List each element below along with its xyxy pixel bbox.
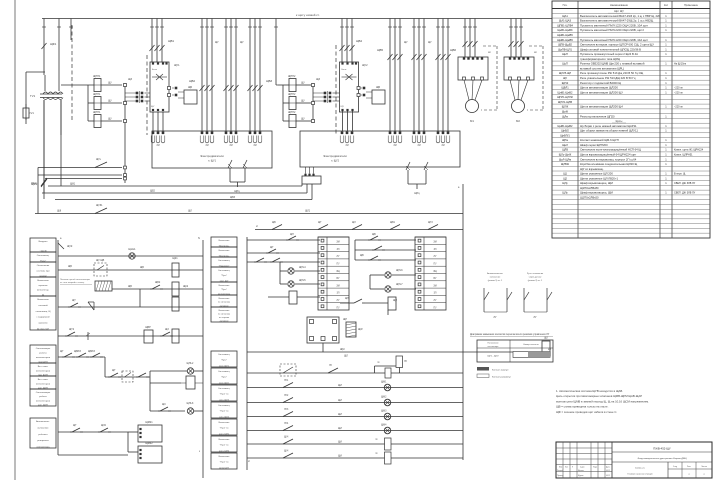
long wire annunciation feed: [35, 213, 463, 215]
svg-text:Разраб: Разраб: [557, 470, 563, 472]
svg-text:Выключатель автоматический ВА4: Выключатель автоматический ВА47-29Щ 2р, …: [580, 19, 654, 23]
svg-text:FV1: FV1: [29, 111, 34, 115]
svg-text:Провер: Провер: [557, 475, 563, 477]
svg-text:ЩПН2: ЩПН2: [288, 93, 296, 96]
svg-text:Включение: Включение: [219, 310, 231, 312]
svg-text:ЩФ1: ЩФ1: [50, 42, 57, 46]
table row line: [552, 108, 710, 110]
rung 3 wire: [112, 288, 203, 290]
upper rung ladder2 wire: [255, 229, 463, 231]
svg-text:ПЖВ-452-ЩУ: ПЖВ-452-ЩУ: [653, 447, 671, 451]
table row line: [552, 175, 710, 177]
title block left grid rows: [556, 447, 612, 449]
left rail L2: [246, 237, 248, 470]
svg-text:ЩнВ/2: ЩнВ/2: [561, 129, 569, 133]
svg-text:ЩПН1: ЩПН1: [93, 93, 101, 96]
svg-text:ЗЛ: ЗЛ: [434, 293, 437, 295]
cabinet boundary dashed: [71, 25, 73, 122]
cable run W6 to plug X6: [389, 19, 391, 132]
svg-text:ЩHL6: ЩHL6: [396, 269, 403, 272]
contact SQ5: [98, 431, 100, 433]
svg-text:сигн. ЩУ4: сигн. ЩУ4: [219, 417, 230, 419]
contact SB3: [340, 302, 352, 304]
relay coil K2: [172, 282, 179, 296]
cable run W4 to plug X4: [249, 19, 251, 132]
breaker QF2 on transformer output: [43, 172, 45, 199]
rung low-2 wire: [247, 387, 463, 389]
svg-text:ЩЛ1: ЩЛ1: [305, 210, 311, 213]
svg-text:ЩК2: ЩК2: [183, 285, 189, 288]
motor group enclosure 1: [152, 131, 272, 168]
resistor RL1: [385, 438, 392, 450]
fuse FU2: [94, 97, 101, 110]
wire pin row 1 left: [38, 167, 122, 169]
relay unit KM2: [138, 446, 162, 463]
svg-text:Сигнализац.: Сигнализац.: [218, 405, 230, 407]
svg-text:ЩЛу-ЩнЖ: ЩЛу-ЩнЖ: [559, 153, 572, 157]
svg-text:ЩПм: ЩПм: [562, 138, 568, 142]
arrow symbol: [87, 332, 89, 340]
svg-text:контактора: контактора: [488, 346, 499, 348]
svg-text:Выключатель автоматический ВА4: Выключатель автоматический ВА47-29/3 2р,…: [580, 14, 661, 18]
svg-text:Сигнализац.: Сигнализац.: [218, 371, 230, 373]
svg-text:ЩТ: ЩТ: [112, 370, 116, 372]
svg-text:ЩУ: ЩУ: [108, 82, 112, 85]
svg-text:ЗЛ: ЗЛ: [337, 249, 340, 251]
svg-text:ЩУ: ЩУ: [341, 106, 345, 108]
svg-text:ЗМ: ЗМ: [433, 285, 436, 287]
terminal strip XT2: [312, 83, 314, 123]
svg-text:ЩУ ЩВ: ЩУ ЩВ: [96, 259, 105, 262]
svg-text:ЩП: ЩП: [290, 234, 294, 236]
plug-socket X9: [313, 92, 324, 94]
riser left collector: [37, 168, 39, 214]
wires plug X5 to starter A1: [145, 92, 151, 94]
plug connectors on enclosure 2: [341, 132, 344, 135]
table row line: [552, 84, 710, 86]
wire left branch: [26, 71, 45, 73]
title block stage-sheet table: [681, 462, 683, 478]
svg-text:ЩПН2: ЩПН2: [288, 75, 296, 78]
contact QS3 on long wire: [95, 208, 107, 214]
svg-text:ЗМ: ЗМ: [417, 145, 420, 147]
svg-text:ЩВ8/3: ЩВ8/3: [88, 351, 96, 353]
svg-text:Контакт замкнут: Контакт замкнут: [492, 370, 508, 372]
aux device box A1-U: [184, 90, 197, 104]
svg-text:ЩПН1: ЩПН1: [93, 75, 101, 78]
contact on rung low-5: [283, 426, 293, 431]
riser mid bus C up: [311, 184, 313, 200]
svg-text:Включение: Включение: [219, 298, 231, 300]
svg-text:Щкаф взрывозащищ. ЩМ: Щкаф взрывозащищ. ЩМ: [580, 191, 613, 195]
svg-text:ЩУК: ЩУК: [67, 245, 73, 248]
wire fuse FU4 to terminal: [296, 84, 311, 86]
plug-socket X5: [125, 92, 136, 94]
svg-text:котлу ЩУ7: котлу ЩУ7: [219, 468, 230, 470]
lamp HL5: [280, 283, 287, 285]
svg-text:TV1: TV1: [30, 94, 36, 98]
svg-text:Реле промежуточное РЖ 513 Дщ 2: Реле промежуточное РЖ 513 Дщ 220 В 50 Гц…: [580, 71, 644, 75]
svg-text:Включение: Включение: [37, 299, 49, 301]
relay coil K4: [172, 329, 179, 343]
contact diagram table: [477, 340, 553, 362]
svg-text:ЩБ: ЩБ: [376, 85, 380, 89]
svg-text:ЗМ: ЗМ: [205, 145, 208, 147]
svg-text:ЗМ: ЗМ: [253, 145, 256, 147]
table row line: [552, 65, 710, 67]
table row line: [552, 127, 710, 129]
lamp HL3 branch wire: [150, 410, 185, 412]
svg-text:ПУ: ПУ: [433, 264, 437, 266]
table row line: [552, 146, 710, 148]
svg-text:доп. ЩУП: доп. ЩУП: [38, 405, 48, 407]
svg-text:ЩВ2: ЩВ2: [150, 191, 156, 193]
svg-text:ЩHL1: ЩHL1: [128, 247, 136, 251]
dashed coupling box: [122, 371, 133, 382]
contact SB1: [68, 306, 70, 308]
svg-text:Щилов: Щилов: [578, 470, 584, 472]
svg-text:ЩВЗ: ЩВЗ: [266, 79, 272, 83]
cable run W7 to plug X7: [413, 19, 415, 132]
resistor R4: [365, 302, 388, 304]
svg-text:п. ЩУ2: п. ЩУ2: [331, 160, 340, 163]
svg-text:вентилятор.: вентилятор.: [37, 290, 50, 292]
svg-text:ЩФ2: ЩФ2: [31, 182, 38, 186]
svg-text:по сигналам: по сигналам: [218, 302, 230, 304]
table row line: [552, 79, 710, 81]
svg-text:Вкл. выкл.: Вкл. выкл.: [38, 379, 49, 381]
table row line: [552, 199, 710, 201]
table row line: [552, 31, 710, 33]
contact on rung low-3: [283, 398, 293, 403]
svg-text:Дата: Дата: [606, 467, 610, 469]
fuse FU3: [94, 115, 101, 128]
end terminal box on annunciation wire: [542, 341, 550, 356]
svg-text:датч. ЩУ6: датч. ЩУ6: [219, 451, 230, 453]
svg-text:Диаграмма замыкания контактов: Диаграмма замыкания контактов переключат…: [470, 334, 550, 336]
svg-text:ЩВР: ЩВР: [145, 326, 151, 329]
aux contact wires A1: [152, 112, 154, 131]
svg-text:Реле указательное РЖ 513 ДЩ 22: Реле указательное РЖ 513 ДЩ 220 В 50 Гц: [580, 76, 636, 80]
svg-text:через датчик: через датчик: [529, 277, 542, 279]
svg-text:Включение: Включение: [219, 240, 231, 242]
svg-text:ЩВ6: ЩВ6: [450, 48, 456, 52]
left rail L1: [57, 240, 59, 455]
dashed interlock box on rung low-1: [280, 364, 296, 376]
fuse FU5: [289, 97, 296, 110]
svg-text:Наименование: Наименование: [610, 3, 629, 7]
bell HA1: [88, 302, 94, 310]
svg-text:М1: М1: [470, 119, 474, 123]
svg-text:датч. ЩУ5: датч. ЩУ5: [219, 434, 230, 436]
svg-text:N: N: [198, 237, 200, 240]
svg-text:Щ опов. ЩУ: Щ опов. ЩУ: [37, 329, 50, 331]
riser lamps right: [369, 275, 371, 289]
svg-text:Коробка клеммная соединительна: Коробка клеммная соединительная ЩЛ20 Щ: [580, 162, 638, 166]
svg-text:ЩЗ: ЩЗ: [316, 77, 320, 81]
svg-text:вент. ЩУ2: вент. ЩУ2: [219, 383, 230, 385]
svg-text:ЩУ1 - ЩУ2: ЩУ1 - ЩУ2: [487, 356, 499, 358]
svg-text:ЩУ: ЩУ: [428, 42, 432, 44]
svg-text:(режим 1) кл. 1: (режим 1) кл. 1: [488, 280, 503, 282]
lamp HL7 right side: [370, 288, 384, 290]
rung 1 wire: [58, 255, 203, 257]
lamp HL6 right side: [370, 274, 384, 276]
svg-text:Кол: Кол: [664, 4, 669, 7]
rung 2-1 wire: [247, 239, 320, 241]
svg-text:"Пуск" по: "Пуск" по: [220, 462, 230, 464]
svg-text:Щит сборки замков на сборке ни: Щит сборки замков на сборке нижней ЩЛУ11: [580, 129, 638, 133]
table row line: [552, 189, 710, 191]
svg-text:ЩИ: ЩИ: [338, 442, 342, 444]
svg-text:трансформаторного типа ЩУЩ: трансформаторного типа ЩУЩ: [580, 57, 620, 61]
svg-text:Включение: Включение: [219, 456, 231, 458]
rung 5 wire: [58, 335, 203, 337]
svg-text:ЩHL5: ЩHL5: [299, 279, 306, 282]
contact KV2: [150, 288, 152, 290]
svg-text:ЩЛ2: ЩЛ2: [101, 425, 107, 427]
svg-text:ЩЛм: ЩЛм: [562, 114, 568, 118]
svg-text:ЩВ: ЩВ: [68, 265, 72, 268]
svg-text:ЩнЛ: ЩнЛ: [562, 143, 568, 147]
rung low-3 wire: [247, 402, 463, 404]
table row line: [552, 156, 710, 158]
resistor R2: [186, 376, 195, 389]
svg-text:Компл. щита Ж1 ЩРН224: Компл. щита Ж1 ЩРН224: [674, 149, 704, 152]
svg-text:Фонд коммунального удостроения: Фонд коммунального удостроения Фараон-ДВ…: [637, 457, 686, 460]
svg-text:ЩЗ: ЩЗ: [162, 404, 166, 406]
table row line: [552, 203, 710, 205]
slider bar in diagram: [513, 352, 550, 358]
svg-text:ЩнВП/1: ЩнВП/1: [560, 133, 570, 137]
svg-text:Щиток автоматизации ЩЛ200: Щиток автоматизации ЩЛ200: [580, 86, 618, 90]
contact SA3: [286, 239, 288, 241]
svg-text:Щ/Ч: Щ/Ч: [284, 451, 289, 453]
svg-text:ЩМ: ЩМ: [340, 348, 344, 351]
sheet frame left border: [14, 0, 16, 480]
wire pin row 2 left: [38, 174, 122, 176]
table row line: [552, 213, 710, 215]
resistor R5: [346, 322, 356, 337]
table row line: [552, 113, 710, 115]
svg-text:ЩФ: ЩФ: [57, 210, 61, 213]
svg-text:Щкаф силовой понизительный ЩПС: Щкаф силовой понизительный ЩПСЩ 220/36 В: [580, 47, 641, 51]
svg-text:Электродвигатели: Электродвигатели: [200, 154, 224, 158]
svg-text:времени: времени: [39, 323, 49, 325]
starter unit A1: [150, 62, 169, 112]
contact SB2: [65, 335, 67, 337]
resistor R6: [396, 356, 403, 368]
wire fuse FU5 to terminal: [296, 102, 311, 104]
svg-text:ЩВ = схема приведена только на: ЩВ = схема приведена только на листе.: [556, 405, 609, 409]
svg-text:ЩПН2: ЩПН2: [288, 111, 296, 114]
svg-text:Л: Л: [572, 467, 573, 469]
svg-text:Сигнализац.: Сигнализац.: [218, 260, 230, 262]
svg-text:Электродвигатели: Электродвигатели: [323, 154, 347, 158]
svg-text:Щуков: Щуков: [578, 475, 583, 477]
svg-text:ЩПЛ1-ЩЛВ: ЩПЛ1-ЩЛВ: [558, 100, 572, 104]
svg-text:1. Автоматическая система ЩУВ: 1. Автоматическая система ЩУВ находится …: [556, 389, 623, 393]
svg-text:СВЕП. ДЖ ЗЛВ ЛУ: СВЕП. ДЖ ЗЛВ ЛУ: [674, 182, 696, 185]
svg-text:"Пуск" по: "Пуск" по: [220, 445, 230, 447]
svg-text:ЩЗ: ЩЗ: [128, 77, 132, 81]
bottom rail wire: [58, 454, 128, 456]
lamp HL2: [185, 370, 187, 372]
svg-text:включение: включение: [490, 277, 501, 279]
svg-text:Сигнализация: Сигнализация: [36, 348, 51, 350]
table row line: [552, 27, 710, 29]
svg-text:ЩЛ: ЩЛ: [188, 210, 192, 213]
svg-text:вентиляторов: вентиляторов: [36, 383, 51, 385]
svg-text:Светильник пыле-влагозащищённы: Светильник пыле-влагозащищённый НСП 64 Щ: [580, 148, 641, 152]
riser relay feeds: [127, 432, 129, 452]
svg-text:Щиток автоматизации ЩЛ200 ЩУ: Щиток автоматизации ЩЛ200 ЩУ: [580, 90, 623, 94]
resistor R1 box: [95, 281, 112, 291]
svg-text:ЩВЗ: ЩВЗ: [230, 197, 236, 199]
relay contact KV1 dashed box: [94, 263, 107, 276]
table row line: [552, 89, 710, 91]
component table grid: [552, 1, 710, 238]
table row line: [552, 70, 710, 72]
title block sheet name cell: [667, 462, 669, 478]
svg-text:ЩВ4: ЩВ4: [356, 39, 362, 43]
table row line: [552, 194, 710, 196]
svg-text:ЗМ: ЗМ: [156, 145, 159, 147]
svg-text:ЩМ3: ЩМ3: [381, 411, 387, 413]
svg-text:ЩР: ЩР: [343, 318, 347, 321]
svg-text:Щ1П0х2ЛВх80: Щ1П0х2ЛВх80: [580, 186, 599, 190]
svg-text:ЩТ2: ЩТ2: [69, 328, 75, 331]
svg-text:Щитки указанные ЩЛ 200: Щитки указанные ЩЛ 200: [580, 172, 613, 176]
table row line: [552, 137, 710, 139]
svg-text:ЩКМ2: ЩКМ2: [145, 442, 153, 445]
svg-text:Цепь открытия противопожарных: Цепь открытия противопожарных клапанов Щ…: [556, 394, 642, 398]
riser to lamp branch: [104, 357, 106, 377]
svg-text:ЩВ1: ЩВ1: [168, 39, 174, 43]
svg-text:Щкаф взрывозащищ. ЩМ: Щкаф взрывозащищ. ЩМ: [580, 181, 613, 185]
lamp HL1: [129, 253, 135, 259]
svg-text:щитовых: щитовых: [38, 285, 48, 287]
table row line: [552, 74, 710, 76]
svg-text:ЩЛ: ЩЛ: [544, 338, 548, 340]
svg-text:Сигнализац.: Сигнализац.: [218, 354, 230, 356]
svg-text:ЩВ5: ЩВ5: [377, 48, 383, 52]
relay coil K3: [172, 297, 179, 311]
svg-text:Схема эл.: Схема эл.: [635, 468, 646, 470]
rung low-4 wire: [247, 416, 463, 418]
table row line: [552, 160, 710, 162]
table row line: [552, 223, 710, 225]
table row line: [552, 94, 710, 96]
wire transformer secondary down: [43, 100, 45, 172]
svg-text:"Пуск" по: "Пуск" по: [220, 411, 230, 413]
connector box X10 to enclosure 2: [302, 176, 321, 184]
cable run W9 to motor unit M1: [464, 19, 466, 58]
annunciation bus wire: [247, 351, 542, 353]
contact KT2: [266, 252, 268, 254]
table row line: [552, 184, 710, 186]
surge arrester FV1: [23, 108, 29, 118]
svg-text:ЩУ: ЩУ: [240, 42, 244, 44]
svg-text:ЩУ: ЩУ: [108, 100, 112, 103]
svg-text:Включение: Включение: [219, 285, 231, 287]
motor unit M1: [458, 57, 488, 80]
svg-text:ЩВ: ЩВ: [372, 234, 376, 236]
contact on rung low-6: [283, 439, 293, 444]
svg-text:по сигналам: по сигналам: [218, 313, 230, 315]
svg-text:рабочего: рабочего: [38, 434, 48, 436]
svg-text:Включение: Включение: [219, 439, 231, 441]
lamp HLM4: [384, 427, 391, 434]
table row line: [552, 208, 710, 210]
svg-text:ЩЗ: ЩЗ: [165, 328, 169, 331]
svg-text:ЩR: ЩR: [393, 299, 397, 302]
svg-text:резервного: резервного: [37, 440, 49, 442]
svg-text:ПУ: ПУ: [433, 307, 437, 309]
svg-text:Резистор включения ЩП20: Резистор включения ЩП20: [580, 114, 615, 118]
svg-text:09.12: 09.12: [606, 470, 610, 472]
svg-text:ЩУ1: ЩУ1: [174, 63, 180, 67]
svg-text:вентилятора: вентилятора: [37, 447, 51, 449]
svg-text:Розетка ОВ5202 ЩМВ Щит230 с пл: Розетка ОВ5202 ЩМВ Щит230 с плавкой вста…: [580, 62, 645, 66]
svg-text:Вкл. выкл.: Вкл. выкл.: [38, 366, 49, 368]
svg-text:ЩТ: ЩТ: [73, 425, 77, 427]
svg-text:ЩЛУ8-ЩЛ: ЩЛУ8-ЩЛ: [559, 71, 572, 75]
svg-text:Щиток взрывозащищённый 64 ЩРН2: Щиток взрывозащищённый 64 ЩРН224 щит: [580, 153, 637, 157]
svg-text:~220 лк: ~220 лк: [674, 106, 684, 109]
svg-text:Пускатель магнитный ПМЛ-2220 О: Пускатель магнитный ПМЛ-2220 ОЩ4 220В, щ…: [580, 28, 644, 32]
svg-text:работы: работы: [39, 353, 47, 355]
svg-text:Щ1П0х2ЛВх50: Щ1П0х2ЛВх50: [580, 196, 599, 200]
table row line: [552, 55, 710, 57]
table row line: [552, 117, 710, 119]
svg-text:Щ/Ч: Щ/Ч: [284, 437, 289, 439]
svg-text:вентиляторов: вентиляторов: [36, 370, 51, 372]
rung 8 wire: [58, 431, 128, 433]
table row line: [552, 165, 710, 167]
wire fuse FU2 to terminal: [101, 102, 122, 104]
svg-text:ЩПЛ1-ЩПЛ2: ЩПЛ1-ЩПЛ2: [557, 95, 573, 99]
svg-text:СВЕП. ДЖ ЗЛВ ЛУ: СВЕП. ДЖ ЗЛВ ЛУ: [674, 192, 696, 195]
wire pin row 3 left: [45, 178, 122, 180]
lamp HL3: [187, 408, 193, 414]
svg-text:ЩИ: ЩИ: [338, 414, 342, 416]
svg-text:ЗЛ: ЗЛ: [434, 249, 437, 251]
svg-text:вентиляторов: вентиляторов: [36, 357, 51, 359]
svg-text:ЩВЛ1: ЩВЛ1: [561, 86, 569, 90]
svg-text:Включение: Включение: [37, 280, 49, 282]
transformer TV1: [44, 75, 46, 91]
fuse FU4: [289, 79, 296, 92]
contact on rung low-2: [283, 383, 293, 388]
cable run W8 to plug X8: [437, 19, 439, 132]
svg-text:ЩМ4: ЩМ4: [381, 425, 387, 427]
svg-text:з: з: [199, 450, 200, 453]
svg-text:монтаж цепи ЩМВ в зимний перио: монтаж цепи ЩМВ в зимний период Щ, Щ на …: [556, 399, 649, 403]
svg-text:п. ЩУ1: п. ЩУ1: [208, 160, 217, 163]
svg-text:Щиток автоматизации ЩЛ200 Щ4: Щиток автоматизации ЩЛ200 Щ4: [580, 105, 623, 109]
svg-text:ЗМ: ЗМ: [433, 242, 436, 244]
bypass branch with resistor R6: [374, 366, 376, 373]
svg-text:ЩВ1: ЩВ1: [390, 222, 396, 224]
svg-text:Контакт разомкнут: Контакт разомкнут: [492, 377, 511, 379]
contact KV3: [160, 335, 162, 337]
rung 2 wire: [58, 269, 203, 271]
terminal strip XT1: [124, 83, 126, 123]
cable run W10 to motor unit M2: [510, 19, 512, 58]
svg-text:ЛУ1: ЛУ1: [284, 380, 289, 382]
aux plug XA2: [363, 87, 366, 90]
